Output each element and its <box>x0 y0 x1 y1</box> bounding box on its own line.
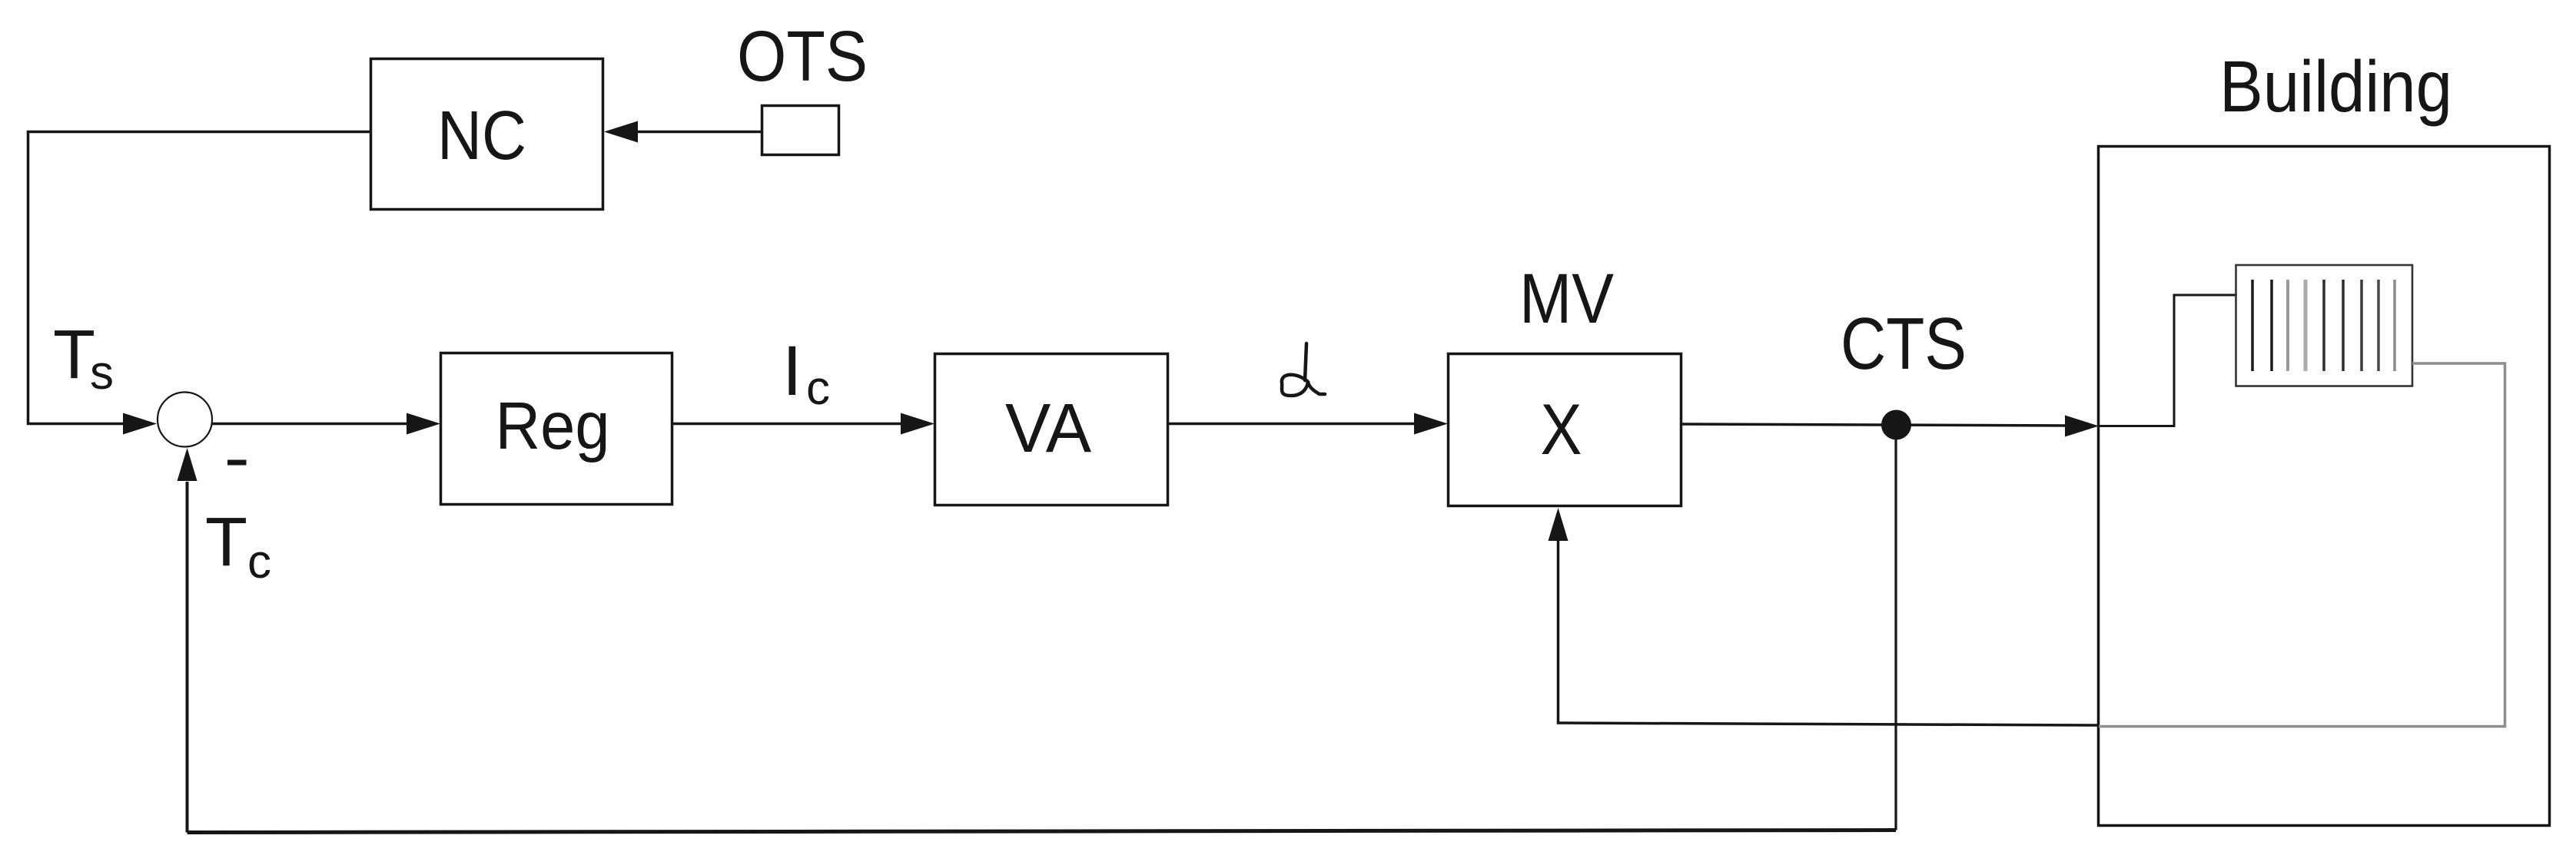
svg-text:MV: MV <box>1519 260 1614 338</box>
svg-text:I: I <box>782 332 802 410</box>
svg-text:c: c <box>247 535 271 588</box>
svg-text:VA: VA <box>1005 390 1091 467</box>
wire OTS to NC <box>637 131 762 134</box>
wire CTS feedback to summing junction <box>1894 425 1897 830</box>
wire NC to summing junction (Ts) <box>28 132 371 424</box>
radiator <box>2236 265 2413 386</box>
svg-text:X: X <box>1541 389 1582 469</box>
arrowhead into VA <box>901 413 934 435</box>
sensor OTS box <box>762 106 839 155</box>
arrowhead into Building <box>2065 416 2099 437</box>
arrowhead into X <box>1414 413 1448 435</box>
arrowhead into summing junction left <box>123 413 157 435</box>
svg-text:Reg: Reg <box>496 389 610 463</box>
arrowhead into Reg <box>407 413 440 435</box>
wire Reg to VA <box>672 423 901 426</box>
svg-text:Building: Building <box>2219 46 2452 128</box>
wire feedback Building to X (valve return) <box>1559 539 2100 725</box>
svg-text:OTS: OTS <box>737 16 868 96</box>
svg-text:s: s <box>90 346 114 399</box>
svg-text:T: T <box>205 504 247 581</box>
svg-text:CTS: CTS <box>1841 303 1967 385</box>
minus sign <box>227 460 247 466</box>
svg-text:c: c <box>806 362 830 415</box>
label alpha (handwritten) <box>1282 343 1325 396</box>
arrowhead up into X bottom <box>1549 508 1569 541</box>
arrowhead into NC <box>604 121 638 143</box>
svg-text:NC: NC <box>437 98 526 174</box>
arrowhead up into summing junction bottom <box>178 448 198 481</box>
block Reg <box>441 353 672 505</box>
wire VA to X <box>1168 423 1414 426</box>
block NC <box>371 59 603 210</box>
node CTS junction dot <box>1881 410 1911 440</box>
summing junction <box>158 393 212 447</box>
wire return pipe from radiator (gray) <box>2099 363 2505 727</box>
svg-text:T: T <box>53 317 95 393</box>
block Building <box>2099 147 2550 826</box>
block VA <box>935 354 1168 506</box>
wire summing junction to Reg <box>212 423 407 426</box>
wire supply pipe inside building to radiator <box>2099 295 2236 426</box>
block X (valve MV) <box>1449 354 1681 506</box>
wire X to Building <box>1681 424 2065 426</box>
